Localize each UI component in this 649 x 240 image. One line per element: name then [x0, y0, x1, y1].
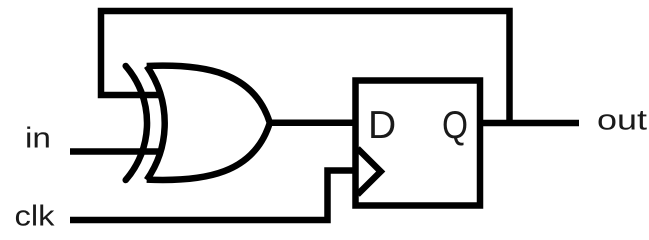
svg-text:in: in: [25, 123, 51, 155]
xor-gate U1 back arc: [147, 66, 165, 180]
wire XOR output to D input: [267, 120, 356, 127]
wire in: [70, 148, 160, 155]
wire Q output to out: [479, 120, 579, 127]
wire feedback loop from Q output to XOR top input: [101, 11, 510, 126]
d-flip-flop U2 clock chevron: [358, 149, 381, 195]
svg-text:Q: Q: [442, 104, 468, 147]
xor-gate U1 extra input arc: [126, 66, 147, 180]
xor-gate U1 body: [147, 66, 270, 180]
d-flip-flop U2 box: [356, 81, 481, 206]
svg-text:D: D: [368, 104, 396, 147]
svg-text:out: out: [597, 104, 647, 136]
svg-text:clk: clk: [15, 201, 56, 233]
wire clk: [70, 171, 355, 221]
